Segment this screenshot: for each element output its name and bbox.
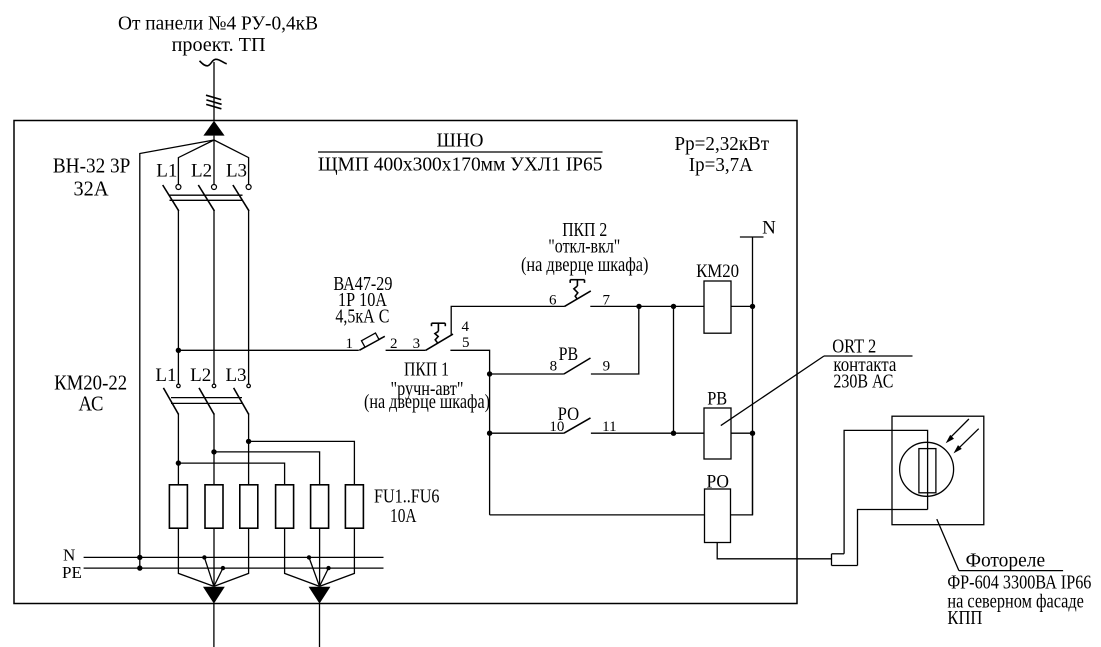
junction: N conductor on N busbar xyxy=(137,555,142,560)
switch ВН-32: mechanical link lines xyxy=(170,194,243,196)
wire: L1 fan xyxy=(178,140,214,184)
wire: N tap to cable 2 xyxy=(309,557,320,586)
svg-text:L1: L1 xyxy=(155,365,176,386)
svg-text:АС: АС xyxy=(79,392,104,416)
svg-text:6: 6 xyxy=(549,293,557,309)
fuse FU5 xyxy=(311,485,329,528)
svg-text:Рр=2,32кВт: Рр=2,32кВт xyxy=(675,133,770,155)
switch ПКП1 manual T-handle xyxy=(432,323,446,343)
wire: L3 vertical to contactor xyxy=(248,210,250,385)
junction on L3 jumper xyxy=(246,439,251,444)
svg-text:Фотореле: Фотореле xyxy=(966,549,1046,571)
wire: L3 fan xyxy=(214,140,249,184)
wire: РО coil right to N vertical xyxy=(731,433,753,515)
junction on L1 feeding control circuit xyxy=(176,348,181,353)
wire: РО coil bottom to photorelay cable xyxy=(717,543,831,559)
wire: PE busbar xyxy=(84,567,384,569)
svg-text:FU1..FU6: FU1..FU6 xyxy=(374,485,440,507)
wire: L1 vertical to contactor xyxy=(177,210,179,385)
svg-text:230В АС: 230В АС xyxy=(833,371,893,393)
switch ВН-32: blade L3 xyxy=(233,185,249,211)
wire: jumper L1 to FU4 xyxy=(178,463,284,485)
svg-text:ВН-32 3Р: ВН-32 3Р xyxy=(53,154,131,178)
svg-text:4,5кА С: 4,5кА С xyxy=(335,305,389,327)
contactor КМ20-22: terminal circle L1 xyxy=(177,384,181,388)
wire: pin9 up to КМ20 line xyxy=(591,306,639,374)
wire: pin7 to КМ20 coil xyxy=(590,305,704,307)
wire: L1 vertical to fuse FU1 xyxy=(177,413,179,484)
wire: control feed to ВА47-29 xyxy=(178,349,358,351)
light arrow 2 xyxy=(958,429,979,449)
breaker ВА47-29 body rectangle xyxy=(361,333,379,347)
switch ПКП2 manual T-handle xyxy=(570,280,584,300)
outgoing cable arrow 1 (filled triangle down) xyxy=(203,587,225,604)
wire: cable 2 leaving cabinet xyxy=(319,604,321,647)
svg-text:РВ: РВ xyxy=(707,388,727,409)
svg-text:ШНО: ШНО xyxy=(437,130,484,152)
junction: on РВ coil feed xyxy=(671,431,676,436)
fuse FU1 xyxy=(169,485,187,528)
switch ПКП1 blade xyxy=(426,334,453,350)
entry arrow (filled triangle pointing up) xyxy=(203,121,224,136)
wire: cable 1 leaving cabinet xyxy=(213,604,215,647)
fuse FU6 xyxy=(345,485,363,528)
N terminal bar xyxy=(740,236,764,238)
wire: to РО contact xyxy=(490,432,564,434)
svg-text:КМ20: КМ20 xyxy=(696,261,739,282)
wire: vertical link РО feed xyxy=(673,306,675,433)
svg-text:10: 10 xyxy=(549,419,564,435)
contact РВ blade xyxy=(564,358,591,374)
photorelay sensor circle xyxy=(900,442,954,496)
junction: N tap cable 1 xyxy=(202,555,206,559)
svg-text:(на дверце шкафа): (на дверце шкафа) xyxy=(521,254,649,276)
wire: FU3 outgoing xyxy=(214,528,249,586)
svg-text:11: 11 xyxy=(602,419,616,435)
svg-text:32А: 32А xyxy=(74,177,110,201)
svg-text:2: 2 xyxy=(390,336,398,352)
contactor КМ20-22: blade L3 xyxy=(234,388,249,415)
svg-text:1: 1 xyxy=(346,336,354,352)
wire: L2 vertical to contactor xyxy=(213,210,215,385)
wire: РВ coil to N xyxy=(731,432,753,434)
contactor КМ20-22: blade L2 xyxy=(199,388,214,415)
coil РВ xyxy=(704,408,731,459)
title underline xyxy=(318,151,603,153)
junction: N conductor on PE busbar xyxy=(137,565,142,570)
svg-text:L2: L2 xyxy=(191,161,212,182)
junction: РВ branch xyxy=(487,371,492,376)
contactor КМ20-22: mechanical link lines xyxy=(171,397,242,399)
junction: N tap cable 2 xyxy=(307,555,311,559)
svg-text:Iр=3,7А: Iр=3,7А xyxy=(689,154,754,176)
wire: N vertical xyxy=(752,237,754,515)
three-conductor slashes on supply wire xyxy=(206,95,221,99)
wire: РО coil left feed xyxy=(490,514,705,516)
svg-text:ЩМП 400х300х170мм УХЛ1 IP65: ЩМП 400х300х170мм УХЛ1 IP65 xyxy=(318,154,603,176)
fuse FU3 xyxy=(240,485,258,528)
contact РО blade xyxy=(564,418,591,433)
wire: PE tap to cable 2 xyxy=(320,568,329,586)
breaker ВА47-29 blade xyxy=(359,336,385,350)
wire: L2 fan xyxy=(213,140,215,184)
svg-text:КПП: КПП xyxy=(947,607,982,629)
photorelay leader line xyxy=(937,519,959,571)
svg-text:РВ: РВ xyxy=(559,344,579,365)
wire: photorelay conductor 1 xyxy=(844,430,928,553)
junction: PE tap cable 2 xyxy=(326,566,330,570)
coil КМ20 xyxy=(704,281,731,333)
cabinet enclosure ШНО box xyxy=(14,121,797,604)
wire: pin11 to РВ coil xyxy=(591,432,704,434)
svg-text:10А: 10А xyxy=(390,505,417,527)
wire: jumper L3 to FU6 xyxy=(249,441,355,484)
photorelay cable bracket xyxy=(831,554,833,566)
switch ВН-32: blade L2 xyxy=(198,185,214,211)
svg-text:От панели №4 РУ-0,4кВ: От панели №4 РУ-0,4кВ xyxy=(118,13,318,35)
wire: L3 vertical to fuse FU3 xyxy=(248,413,250,484)
fuse FU4 xyxy=(276,485,294,528)
svg-text:N: N xyxy=(63,546,75,565)
wire: FU5 outgoing xyxy=(319,528,321,586)
ORT leader underline xyxy=(824,355,913,357)
junction: КМ20 on N vertical xyxy=(750,304,755,309)
switch ВН-32: terminal circle L2 xyxy=(212,185,217,190)
photorelay sensor window xyxy=(919,449,936,493)
light arrow 1 xyxy=(950,419,969,438)
svg-text:L1: L1 xyxy=(156,161,177,182)
switch ВН-32: blade L1 xyxy=(163,185,179,211)
svg-text:L3: L3 xyxy=(225,365,246,386)
svg-text:9: 9 xyxy=(603,359,611,375)
svg-text:4: 4 xyxy=(461,319,469,335)
wire: L2 vertical to fuse FU2 xyxy=(213,413,215,484)
wire: PE tap to cable 1 xyxy=(214,568,223,586)
svg-text:(на дверце шкафа): (на дверце шкафа) xyxy=(364,391,490,413)
wire: stub below entry arrow xyxy=(213,136,215,140)
junction: РВ contact return xyxy=(636,304,641,309)
svg-text:проект. ТП: проект. ТП xyxy=(172,34,266,56)
wire: FU4 outgoing xyxy=(285,528,320,586)
junction on L1 jumper xyxy=(176,460,181,465)
contactor КМ20-22: terminal circle L3 xyxy=(247,384,251,388)
junction: РО contact feed xyxy=(671,304,676,309)
wire: photorelay conductor 2 xyxy=(858,510,928,566)
wire: N tap to cable 1 xyxy=(204,557,214,586)
svg-text:L2: L2 xyxy=(190,365,211,386)
outgoing cable arrow 2 (filled triangle down) xyxy=(309,587,331,604)
wire: FU6 outgoing xyxy=(320,528,355,586)
wire: N conductor fan to left xyxy=(140,140,214,568)
wire: КМ20 coil to N xyxy=(731,305,753,307)
coil РО xyxy=(705,489,731,543)
wire: N busbar xyxy=(84,556,384,558)
wire: pin5 to control vertical xyxy=(450,350,489,515)
svg-text:N: N xyxy=(762,218,776,239)
contactor КМ20-22: terminal circle L2 xyxy=(212,384,216,388)
break symbol (squiggle) on supply wire xyxy=(200,59,227,66)
junction on L2 jumper xyxy=(211,449,216,454)
junction: PE tap cable 1 xyxy=(221,566,225,570)
switch ВН-32: terminal circle L3 xyxy=(246,185,251,190)
wire: incoming supply drop xyxy=(213,62,215,121)
svg-text:8: 8 xyxy=(550,359,558,375)
switch ВН-32: terminal circle L1 xyxy=(176,185,181,190)
wire: FU2 outgoing xyxy=(213,528,215,586)
wire: FU1 outgoing xyxy=(178,528,214,586)
fuse FU2 xyxy=(205,485,223,528)
svg-text:PE: PE xyxy=(62,563,82,582)
wire: pin4 up and across to pin 6 xyxy=(451,306,564,334)
contactor КМ20-22: blade L1 xyxy=(163,388,178,415)
junction: РО branch xyxy=(487,431,492,436)
svg-text:L3: L3 xyxy=(226,161,247,182)
svg-text:5: 5 xyxy=(462,335,470,351)
wire: to РВ contact xyxy=(490,373,564,375)
photorelay housing xyxy=(892,416,984,525)
ORT leader diagonal to РВ coil xyxy=(721,356,824,426)
wire: jumper L2 to FU5 xyxy=(214,452,320,485)
wire: pin2 to pin3 xyxy=(386,349,426,351)
switch ПКП2 blade xyxy=(565,291,591,307)
svg-text:3: 3 xyxy=(413,336,421,352)
junction: РВ on N vertical xyxy=(750,431,755,436)
